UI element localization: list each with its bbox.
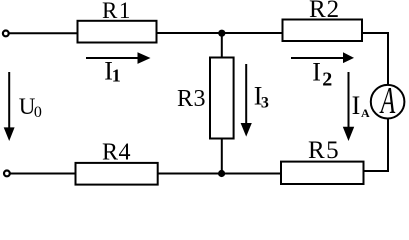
svg-text:I: I xyxy=(312,58,321,87)
terminal bottom-left xyxy=(4,171,10,177)
svg-text:A: A xyxy=(361,106,370,120)
svg-text:I: I xyxy=(352,91,361,120)
resistor R4 xyxy=(76,163,158,185)
svg-text:R3: R3 xyxy=(177,86,206,112)
current arrow I2 xyxy=(291,52,354,63)
label I2 xyxy=(312,58,332,91)
svg-text:R5: R5 xyxy=(308,137,340,164)
resistor R2 xyxy=(283,20,363,42)
wire top-right: R2 to ammeter xyxy=(362,33,388,86)
svg-text:1: 1 xyxy=(112,66,121,86)
resistor R3 xyxy=(210,58,234,139)
svg-text:R4: R4 xyxy=(102,140,131,166)
label IA xyxy=(352,91,370,120)
svg-text:R2: R2 xyxy=(309,0,340,23)
node bottom (junction) xyxy=(218,170,225,177)
svg-text:A: A xyxy=(379,80,396,122)
node top (junction) xyxy=(218,30,225,37)
label I3 xyxy=(254,81,269,111)
wire bottom: node to R5 xyxy=(221,173,283,175)
wire bottom-middle: R4 to node xyxy=(156,173,223,175)
ammeter U1 xyxy=(371,80,405,122)
resistor R1 xyxy=(78,21,157,43)
label U0 xyxy=(19,94,42,121)
source arrow U0 xyxy=(4,72,15,141)
wire: R3 to bottom node xyxy=(221,138,223,174)
svg-text:0: 0 xyxy=(34,104,42,121)
svg-text:2: 2 xyxy=(322,69,332,91)
label I1 xyxy=(104,56,121,85)
wire top-left: terminal to R1 xyxy=(9,32,79,34)
current arrow I3 xyxy=(241,64,252,137)
terminal top-left xyxy=(3,31,9,37)
svg-text:3: 3 xyxy=(261,95,269,112)
current arrow IA xyxy=(343,72,354,141)
current arrow I1 xyxy=(86,52,151,64)
resistor R5 xyxy=(281,162,364,184)
wire: top node to R3 xyxy=(221,32,223,59)
wire bottom-left: terminal to R4 xyxy=(10,173,77,175)
svg-text:R1: R1 xyxy=(102,0,132,23)
wire top-middle: R1 to R2 through node xyxy=(156,32,283,34)
wire right-bottom: ammeter to R5 xyxy=(364,119,389,172)
